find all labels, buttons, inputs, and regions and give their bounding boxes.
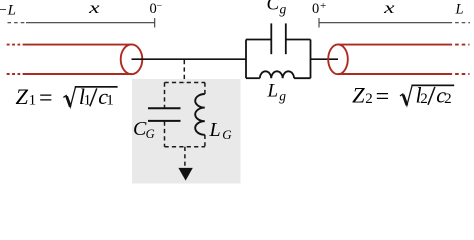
svg-text:L: L (267, 81, 279, 102)
svg-text:Z: Z (352, 82, 365, 107)
svg-text:g: g (279, 89, 286, 104)
svg-text:−L: −L (0, 3, 16, 19)
svg-text:−: − (157, 1, 163, 12)
svg-text:1: 1 (106, 93, 114, 109)
svg-text:2: 2 (444, 91, 452, 107)
svg-text:L: L (455, 2, 464, 18)
svg-text:=: = (39, 86, 53, 112)
svg-text:C: C (267, 0, 280, 15)
svg-text:+: + (320, 0, 326, 12)
svg-text:Z: Z (16, 84, 29, 109)
svg-text:=: = (376, 84, 390, 110)
svg-text:x: x (88, 0, 100, 17)
svg-text:2: 2 (420, 91, 428, 107)
svg-text:g: g (280, 2, 287, 17)
svg-text:L: L (209, 119, 221, 141)
svg-text:0: 0 (312, 1, 319, 17)
svg-text:2: 2 (365, 91, 373, 107)
svg-text:G: G (222, 127, 232, 142)
svg-text:1: 1 (29, 93, 36, 109)
svg-text:G: G (146, 127, 155, 141)
svg-text:x: x (383, 0, 395, 17)
